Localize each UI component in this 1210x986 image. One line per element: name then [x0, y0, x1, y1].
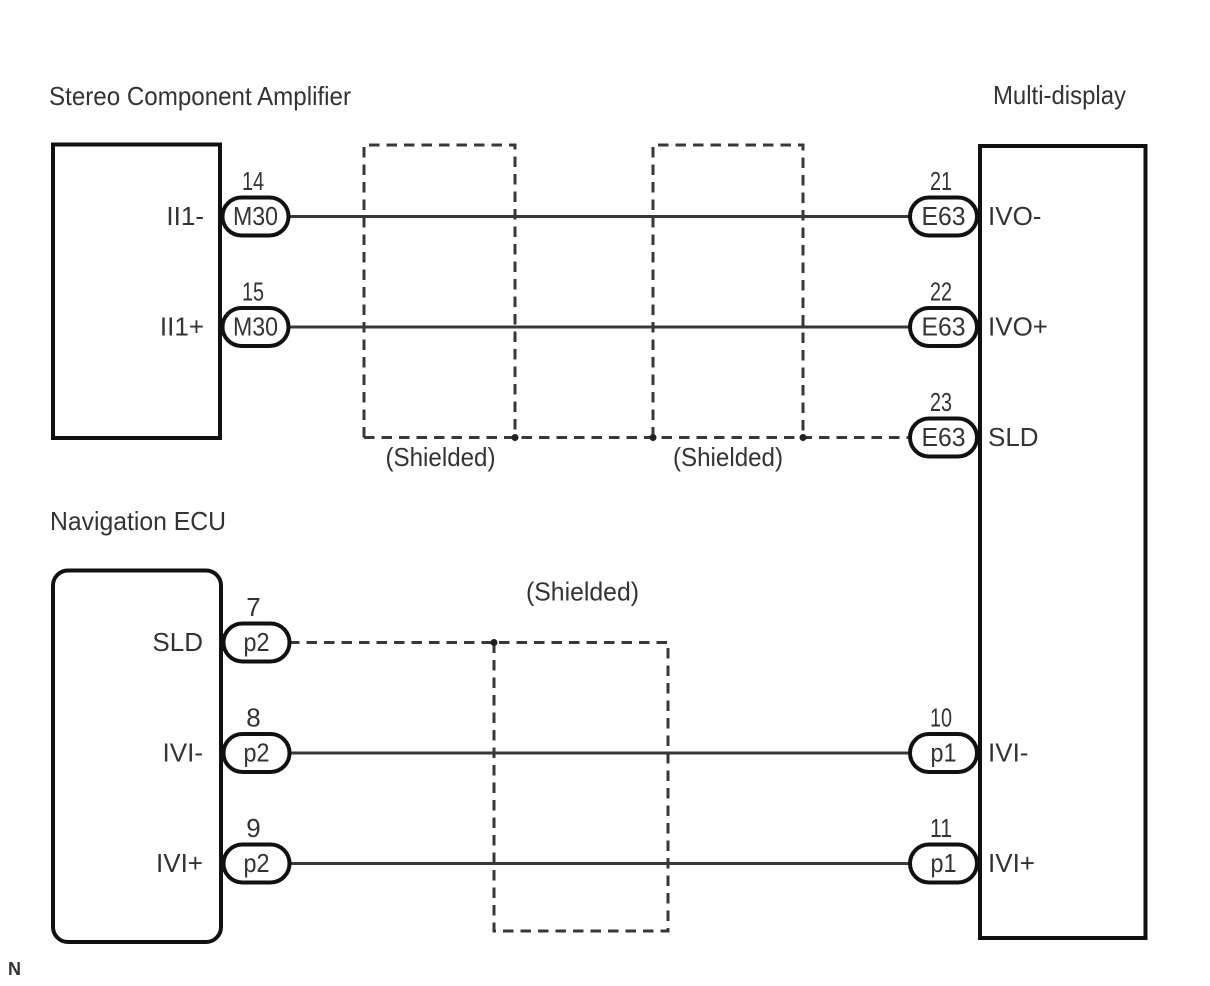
wire IVI- p2 to p1 — [289, 752, 909, 755]
svg-text:IVI+: IVI+ — [156, 848, 203, 878]
svg-text:22: 22 — [930, 277, 952, 307]
component box Multi-display — [980, 146, 1146, 938]
svg-text:p1: p1 — [931, 738, 957, 768]
svg-text:E63: E63 — [922, 201, 966, 231]
svg-text:Multi-display: Multi-display — [993, 80, 1126, 110]
svg-text:Navigation ECU: Navigation ECU — [50, 506, 226, 536]
svg-text:Stereo Component Amplifier: Stereo Component Amplifier — [49, 81, 351, 111]
shield box 1 (dashed) — [364, 145, 515, 438]
connector p1 pin 10 — [910, 734, 977, 772]
connector M30 pin 15 — [223, 308, 289, 346]
wire II1- to IVO- — [289, 215, 909, 218]
svg-text:15: 15 — [242, 277, 264, 307]
svg-text:10: 10 — [930, 703, 952, 733]
svg-text:SLD: SLD — [988, 422, 1039, 452]
svg-text:p1: p1 — [931, 848, 957, 878]
wire IVI+ p2 to p1 — [289, 862, 909, 865]
svg-text:SLD: SLD — [152, 627, 203, 657]
svg-text:(Shielded): (Shielded) — [526, 577, 639, 607]
connector p2 pin 9 — [224, 845, 290, 883]
shield box 3 (dashed) — [494, 643, 668, 932]
wire II1+ to IVO+ — [289, 326, 909, 329]
connector p2 pin 7 — [224, 624, 290, 662]
shield box 2 (dashed) — [653, 145, 803, 438]
component box Navigation ECU — [53, 571, 221, 943]
svg-text:M30: M30 — [233, 201, 278, 231]
junction dot shield3-topleft — [491, 639, 498, 646]
svg-text:23: 23 — [930, 387, 952, 417]
shield wire (dashed) to SLD E63 — [364, 436, 908, 439]
svg-text:p2: p2 — [244, 627, 270, 657]
component box Stereo Component Amplifier — [53, 145, 220, 439]
svg-text:IVI-: IVI- — [163, 738, 203, 768]
svg-text:IVO-: IVO- — [988, 201, 1041, 231]
connector E63 pin 23 — [910, 419, 977, 457]
svg-text:14: 14 — [242, 166, 264, 196]
svg-text:IVO+: IVO+ — [988, 312, 1048, 342]
connector E63 pin 22 — [910, 308, 977, 346]
svg-text:E63: E63 — [922, 312, 966, 342]
wire SLD p2 shield (dashed) — [289, 641, 668, 644]
connector p2 pin 8 — [224, 734, 290, 772]
svg-text:M30: M30 — [233, 312, 278, 342]
connector E63 pin 21 — [910, 198, 977, 236]
svg-text:p2: p2 — [244, 738, 270, 768]
junction dot shield2-right — [800, 434, 807, 441]
svg-text:7: 7 — [246, 592, 260, 622]
connector p1 pin 11 — [910, 845, 977, 883]
svg-text:E63: E63 — [922, 422, 966, 452]
svg-text:N: N — [8, 959, 21, 979]
svg-text:8: 8 — [246, 703, 260, 733]
svg-text:21: 21 — [930, 166, 952, 196]
svg-text:II1-: II1- — [166, 201, 204, 231]
svg-text:p2: p2 — [244, 848, 270, 878]
svg-text:(Shielded): (Shielded) — [386, 442, 496, 472]
connector M30 pin 14 — [223, 198, 289, 236]
svg-text:IVI+: IVI+ — [988, 848, 1035, 878]
svg-text:IVI-: IVI- — [988, 738, 1028, 768]
junction dot shield1-right — [512, 434, 519, 441]
svg-text:(Shielded): (Shielded) — [673, 442, 783, 472]
junction dot shield2-left — [650, 434, 657, 441]
svg-text:II1+: II1+ — [160, 312, 204, 342]
svg-text:9: 9 — [246, 813, 260, 843]
svg-text:11: 11 — [930, 813, 952, 843]
